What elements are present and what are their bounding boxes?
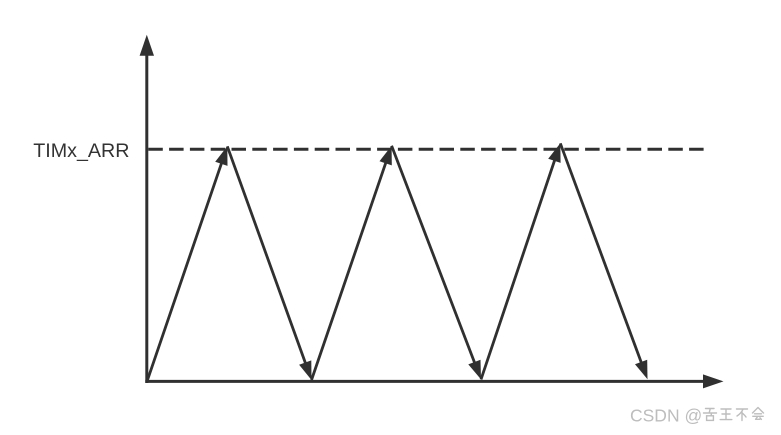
- char hui: [753, 408, 764, 420]
- counter fall 3 segment: [560, 143, 642, 366]
- counter rise 1 segment: [147, 159, 223, 380]
- watermark chinese chars: [704, 408, 764, 421]
- svg-text:TIMx_ARR: TIMx_ARR: [33, 140, 129, 162]
- y-axis: [145, 51, 148, 384]
- dashed TIMx_ARR level line: [148, 148, 705, 151]
- counter fall 1 segment: [227, 146, 306, 367]
- char bu: [737, 409, 748, 421]
- x-axis: [145, 380, 708, 383]
- char wang: [720, 409, 732, 420]
- counter fall 2 segment: [392, 146, 476, 367]
- counter rise 2 segment: [312, 159, 388, 380]
- svg-text:CSDN @: CSDN @: [630, 406, 702, 426]
- counter rise 3 segment: [481, 157, 556, 380]
- char wu: [704, 409, 717, 421]
